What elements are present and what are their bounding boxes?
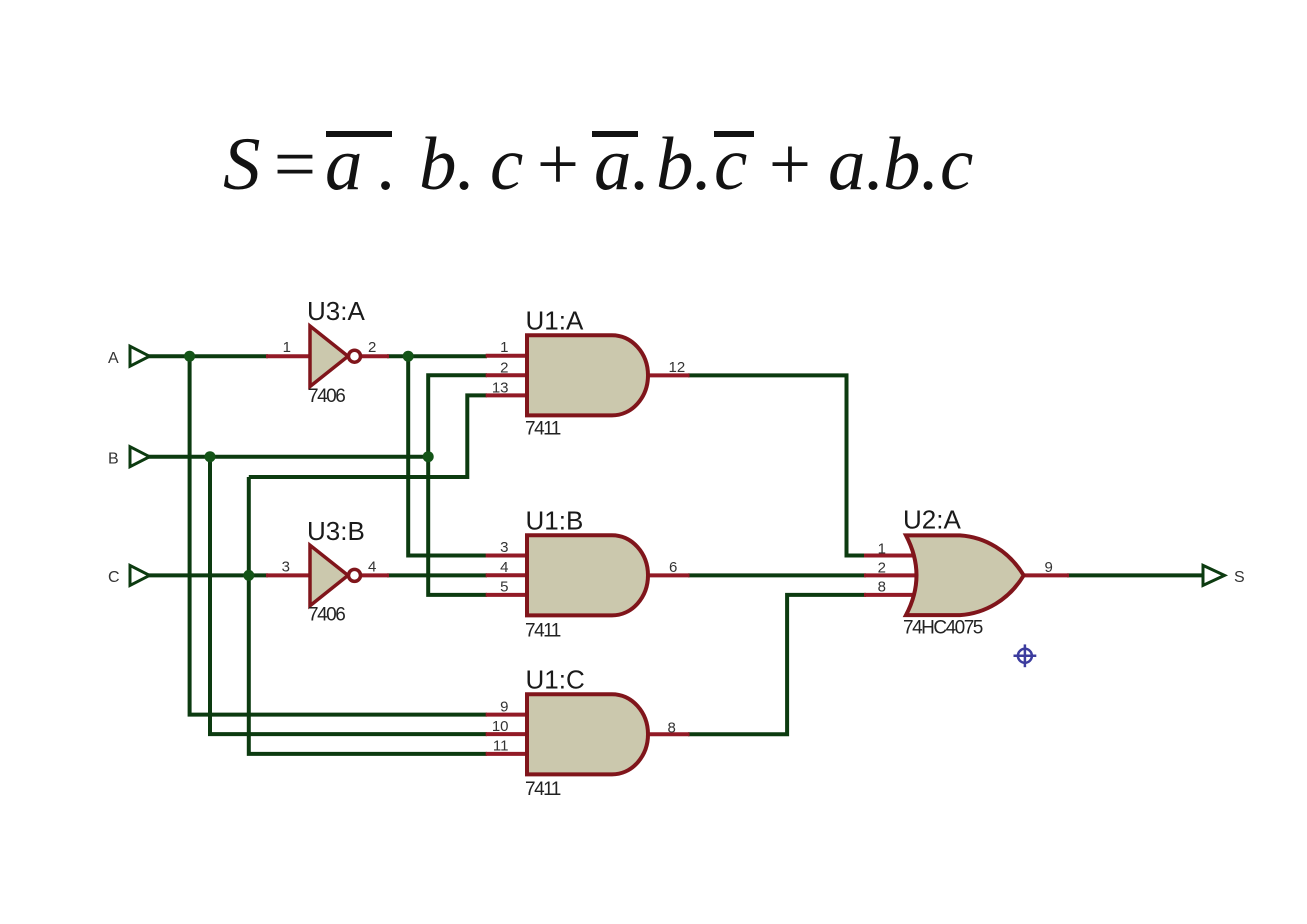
overbar on c [714, 131, 754, 137]
svg-text:12: 12 [669, 359, 686, 376]
input terminal A [130, 346, 150, 366]
svg-text:5: 5 [500, 579, 508, 596]
pin stub U1:A pin 1 [486, 354, 528, 358]
svg-text:1: 1 [500, 339, 508, 356]
pin stub U3:A input pin 1 [266, 354, 311, 358]
pin stub U2:A pin 1 [864, 554, 923, 558]
overbar on second a [592, 131, 638, 137]
svg-text:74HC4075: 74HC4075 [903, 618, 983, 639]
overbar on first a [326, 131, 392, 137]
inverter U3:A bubble [349, 350, 361, 362]
svg-text:U1:B: U1:B [526, 506, 584, 536]
svg-text:B: B [108, 451, 119, 468]
wire U2:A output to terminal S [1067, 573, 1204, 577]
input terminal B [130, 447, 150, 467]
svg-text:C: C [108, 569, 120, 586]
svg-text:8: 8 [878, 579, 886, 596]
AND gate U1:C body (7411) [527, 694, 648, 774]
svg-text:9: 9 [1045, 559, 1053, 576]
pin stub U1:C pin 10 [486, 732, 528, 736]
pin stub U1:A pin 13 [486, 393, 528, 397]
svg-text:2: 2 [368, 339, 376, 356]
svg-text:=: = [269, 123, 320, 206]
pin stub U3:B input pin 3 [266, 573, 311, 577]
wire net a: vertical from A junction down to U1:C pin 9 [190, 356, 487, 714]
svg-text:+: + [764, 123, 815, 206]
svg-text:+: + [532, 123, 583, 206]
svg-text:7406: 7406 [308, 386, 345, 407]
junction node on B row at x=428 [423, 451, 434, 462]
svg-text:4: 4 [368, 559, 376, 576]
wire input C row [148, 573, 268, 577]
junction node U3:A output [403, 351, 414, 362]
svg-text:c: c [940, 123, 973, 206]
pin stub U3:A output pin 2 [359, 354, 389, 358]
OR gate U2:A body (74HC4075) [906, 535, 1024, 615]
svg-text:1: 1 [878, 541, 886, 558]
svg-text:U1:C: U1:C [526, 665, 585, 695]
svg-text:4: 4 [500, 559, 508, 576]
svg-text:2: 2 [500, 360, 508, 377]
junction node on A row [184, 351, 195, 362]
svg-text:b.: b. [883, 123, 939, 206]
svg-text:U3:A: U3:A [307, 296, 365, 326]
wire U1:B output to U2:A pin 2 [688, 573, 866, 577]
svg-text:c: c [490, 123, 523, 206]
svg-text:10: 10 [492, 718, 509, 735]
pin stub U1:A pin 2 [486, 373, 528, 377]
AND gate U1:B body (7411) [527, 535, 648, 615]
svg-text:7411: 7411 [525, 779, 561, 800]
pin stub U1:B pin 4 [486, 573, 528, 577]
pin stub U3:B output pin 4 [359, 573, 389, 577]
wire net b: vertical up to U1:A pin 2 [428, 375, 487, 595]
pin stub U1:B pin 5 [486, 593, 528, 597]
wire net a-bar: vertical from node to U1:B pin 3 [408, 356, 487, 555]
wire U3:B output to U1:B pin 4 [387, 573, 487, 577]
wire input B row [148, 455, 428, 459]
svg-text:b.: b. [656, 123, 712, 206]
input terminal C [130, 565, 150, 585]
wire U3:A output row to U1:A pin 1 [387, 354, 487, 358]
pin stub U1:C pin 9 [486, 713, 528, 717]
wire net c: vertical through C junction down to U1:C pin 11 [249, 477, 487, 754]
wire U1:C output to U2:A pin 8 [688, 595, 866, 734]
AND gate U1:A body (7411) [527, 335, 648, 415]
svg-text:7406: 7406 [308, 605, 345, 626]
pin stub U1:B output pin 6 [646, 573, 690, 577]
inverter U3:B bubble [349, 569, 361, 581]
svg-text:11: 11 [493, 738, 509, 755]
pin stub U2:A pin 8 [864, 593, 923, 597]
svg-text:7411: 7411 [525, 621, 561, 642]
pin stub U2:A output pin 9 [1022, 573, 1069, 577]
svg-text:S: S [223, 123, 261, 206]
svg-text:b.: b. [419, 123, 475, 206]
svg-text:1: 1 [283, 339, 291, 356]
wire net b: vertical from B junction down to U1:C pin 10 [210, 457, 487, 734]
pin stub U1:C output pin 8 [646, 732, 690, 736]
output terminal S [1203, 565, 1225, 585]
svg-text:U2:A: U2:A [903, 505, 961, 535]
svg-text:7411: 7411 [525, 419, 561, 440]
svg-text:a.: a. [828, 123, 884, 206]
svg-text:3: 3 [282, 559, 290, 576]
origin marker (blue crosshair) [1014, 644, 1037, 667]
svg-text:6: 6 [669, 559, 677, 576]
inverter U3:B body (7406) [310, 545, 348, 606]
svg-text:U1:A: U1:A [526, 306, 584, 336]
inverter U3:A body (7406) [310, 326, 348, 387]
svg-text:8: 8 [668, 720, 676, 737]
wire input A row [148, 354, 268, 358]
svg-text:13: 13 [492, 380, 509, 397]
svg-text:3: 3 [500, 539, 508, 556]
wire net c: upper branch to U1:A pin 13 [249, 395, 487, 477]
svg-text:9: 9 [500, 699, 508, 716]
pin stub U1:B pin 3 [486, 554, 528, 558]
pin stub U1:A output pin 12 [646, 373, 690, 377]
pin stub U1:C pin 11 [486, 752, 528, 756]
pin stub U2:A pin 2 [864, 573, 927, 577]
svg-text:U3:B: U3:B [307, 516, 365, 546]
junction node on C row [243, 570, 254, 581]
svg-text:2: 2 [878, 560, 886, 577]
wire U1:A output to U2:A pin 1 [688, 375, 866, 555]
svg-text:S: S [1234, 569, 1245, 586]
junction node on B row at x=210 [205, 451, 216, 462]
svg-text:A: A [108, 350, 119, 367]
